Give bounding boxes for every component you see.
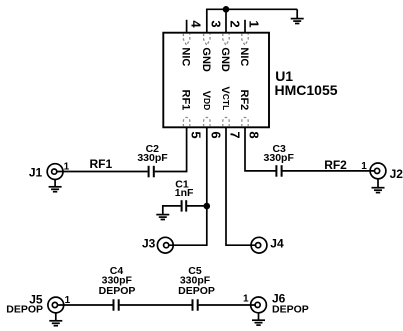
junction dot C1/pin6 [204, 203, 211, 210]
pin number 6 [209, 131, 224, 138]
svg-text:GND: GND [219, 47, 231, 72]
svg-text:DEPOP: DEPOP [178, 285, 215, 297]
pin label VCTL (pin 7) [219, 86, 231, 110]
svg-text:J1: J1 [29, 165, 43, 179]
value HMC1055 [275, 82, 338, 98]
wire pin 2 to top bus [225, 9, 227, 32]
wire J5 to C4 [58, 304, 113, 306]
pin 1 stub [244, 20, 246, 33]
label DEPOP (C5) [178, 285, 215, 297]
pin 4 stub [186, 20, 188, 33]
capacitor C2 [149, 166, 154, 178]
svg-text:1: 1 [243, 293, 249, 304]
pin label NIC (pin 4) [180, 47, 192, 66]
label DEPOP (J6) [272, 303, 309, 315]
ground below C1 [156, 215, 169, 220]
pin 4 pad cup (top) [183, 34, 189, 46]
pin number 4 [188, 20, 203, 28]
pin number 5 [188, 131, 203, 138]
ground below J1 [49, 180, 62, 192]
pin label VDD (pin 6) [200, 91, 212, 111]
label C5 [188, 265, 202, 277]
value 330pF (C3) [264, 152, 295, 164]
value 330pF (C2) [137, 152, 168, 164]
capacitor C1 [182, 200, 187, 211]
connector J6 [251, 297, 267, 313]
IC U1 HMC1055 body [163, 33, 269, 128]
svg-text:J2: J2 [390, 167, 403, 181]
pin number 1 of J1 [64, 162, 70, 173]
label J1 [29, 165, 43, 179]
svg-text:GND: GND [200, 47, 212, 72]
svg-text:3: 3 [209, 20, 224, 27]
pin 2 pad cup (top) [223, 34, 229, 46]
label J3 [142, 237, 156, 251]
wire C1 to junction [187, 205, 207, 207]
pin label GND (pin 3) [200, 47, 212, 72]
ground below J2 [372, 179, 385, 193]
svg-text:5: 5 [188, 131, 203, 138]
svg-text:J4: J4 [270, 237, 284, 251]
pin 7 pad cup (bottom) [223, 117, 229, 126]
connector J2 [370, 163, 386, 179]
wire C1 to ground [163, 206, 181, 214]
label DEPOP (J5) [6, 304, 43, 316]
pin number 7 [228, 131, 243, 138]
svg-text:RF2: RF2 [324, 158, 347, 172]
pin number 1 of J5 [65, 295, 71, 306]
value 330pF (C4) [102, 274, 133, 286]
net label RF2 [324, 158, 347, 172]
refdes U1 [275, 68, 293, 84]
svg-text:DEPOP: DEPOP [272, 303, 309, 315]
svg-text:1: 1 [361, 161, 367, 172]
connector J4 [251, 237, 267, 253]
label J2 [390, 167, 403, 181]
svg-text:NIC: NIC [238, 47, 250, 66]
label J6 [272, 292, 286, 306]
svg-text:8: 8 [247, 131, 262, 138]
connector J3 [157, 237, 173, 253]
wire C4 to C5 [120, 304, 192, 306]
svg-text:J3: J3 [142, 237, 156, 251]
wire C5 to J6 [199, 304, 256, 306]
svg-text:DEPOP: DEPOP [6, 304, 43, 316]
svg-text:NIC: NIC [180, 47, 192, 66]
capacitor C5 [193, 299, 198, 310]
pin number 3 [209, 20, 224, 27]
svg-text:330pF: 330pF [137, 152, 168, 164]
svg-text:RF1: RF1 [180, 90, 192, 111]
capacitor C4 [114, 299, 119, 310]
wire pin 7 down to J4 [226, 127, 256, 245]
label C1 [175, 178, 189, 190]
pin number 1 [247, 20, 262, 27]
svg-text:6: 6 [209, 131, 224, 138]
svg-text:RF1: RF1 [90, 157, 113, 171]
label J5 [29, 293, 43, 307]
svg-text:1: 1 [247, 20, 262, 27]
pin number 2 [228, 20, 243, 27]
pin number 1 of J2 [361, 161, 367, 172]
label C2 [146, 143, 160, 155]
label J4 [270, 237, 284, 251]
pin label RF2 (pin 8) [238, 90, 250, 111]
svg-text:330pF: 330pF [264, 152, 295, 164]
wire top bus to ground [206, 8, 297, 10]
connector J1 [47, 164, 63, 180]
pin number 1 of J6 [243, 293, 249, 304]
wire pin 8 to C3 [245, 127, 276, 171]
ground below J6 [252, 313, 265, 325]
ground below J5 [49, 313, 62, 326]
value 1nF (C1) [175, 187, 194, 199]
wire J1 to C2 [57, 171, 148, 173]
wire C3 to J2 [283, 170, 376, 172]
pin label NIC (pin 1) [238, 47, 250, 66]
svg-text:2: 2 [228, 20, 243, 27]
svg-text:1nF: 1nF [175, 187, 194, 199]
label C4 [110, 265, 124, 277]
pin 3 pad cup (top) [204, 34, 210, 46]
connector J5 [48, 297, 64, 313]
value 330pF (C5) [180, 274, 211, 286]
pin number 8 [247, 131, 262, 138]
svg-text:7: 7 [228, 131, 243, 138]
wire pin 3 to top bus [206, 9, 208, 32]
label DEPOP (C4) [99, 285, 136, 297]
pin 6 pad cup (bottom) [204, 117, 210, 126]
svg-text:RF2: RF2 [238, 90, 250, 111]
svg-text:HMC1055: HMC1055 [275, 82, 338, 98]
pin 1 pad cup (top) [242, 34, 248, 46]
wire C2 to pin 5 [155, 127, 187, 171]
pin label GND (pin 2) [219, 47, 231, 72]
label C3 [272, 143, 286, 155]
net label RF1 [90, 157, 113, 171]
junction dot [223, 6, 230, 13]
svg-text:DEPOP: DEPOP [99, 285, 136, 297]
pin label RF1 (pin 5) [180, 90, 192, 111]
capacitor C3 [276, 165, 281, 177]
svg-text:4: 4 [188, 20, 203, 28]
pin 8 pad cup (bottom) [242, 117, 248, 126]
wire pin 6 down to J3 [168, 127, 207, 245]
ground G1 top right [291, 9, 304, 23]
pin 5 pad cup (bottom) [183, 117, 189, 126]
